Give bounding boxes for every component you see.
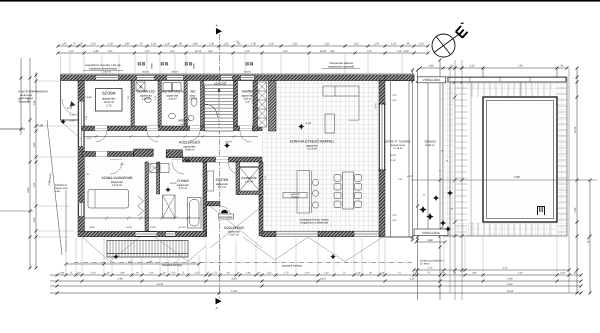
svg-text:12,30: 12,30	[320, 50, 327, 53]
svg-text:90/240: 90/240	[172, 71, 179, 74]
room: MOSDO	[178, 119, 190, 126]
svg-text:pá:90: pá:90	[150, 226, 156, 229]
svg-text:+: +	[451, 207, 453, 211]
dim numbers	[18, 43, 590, 293]
svg-text:5,10 m²: 5,10 m²	[218, 186, 227, 189]
svg-text:1,10: 1,10	[418, 43, 424, 46]
room: TERASZ	[424, 140, 436, 148]
tick marks on dims	[20, 45, 592, 295]
svg-text:96: 96	[407, 43, 410, 46]
svg-text:-1,90: -1,90	[305, 122, 311, 125]
svg-text:szint: szint	[55, 190, 60, 193]
svg-text:1,10: 1,10	[69, 50, 74, 53]
left wall	[78, 81, 84, 233]
svg-text:+: +	[441, 149, 443, 153]
svg-text:WC: WC	[190, 90, 196, 94]
top beam rect	[448, 77, 566, 82]
svg-text:2,90 m²: 2,90 m²	[245, 181, 254, 184]
coffee table / rug	[325, 114, 334, 133]
svg-text:2,70: 2,70	[106, 105, 112, 108]
corridor upper wall band	[82, 126, 262, 131]
door arcs	[62, 99, 252, 217]
porch deck grid	[107, 241, 188, 258]
svg-text:14,30: 14,30	[157, 283, 164, 286]
svg-text:10: 10	[80, 43, 83, 46]
svg-text:1,86: 1,86	[330, 50, 335, 53]
svg-text:KÖZLEKEDŐ: KÖZLEKEDŐ	[224, 226, 244, 230]
svg-text:1,90: 1,90	[398, 178, 403, 181]
svg-text:10: 10	[140, 43, 143, 46]
svg-text:11,30: 11,30	[587, 236, 590, 243]
svg-text:WC: WC	[185, 159, 189, 162]
kitchen counter	[297, 171, 310, 214]
left deck strip	[443, 82, 450, 236]
svg-text:ZUHANYZÓ: ZUHANYZÓ	[137, 90, 155, 94]
svg-text:ÉPÍTETT TERASZ: ÉPÍTETT TERASZ	[386, 140, 411, 144]
witness lines bottom	[66, 237, 557, 274]
svg-text:±0,00: ±0,00	[407, 175, 414, 178]
svg-text:7,40: 7,40	[517, 65, 523, 68]
room: GARDROB	[241, 176, 256, 184]
svg-text:kialakítás: kialakítás	[20, 100, 31, 103]
bottom dim lines	[66, 263, 199, 265]
svg-text:60: 60	[258, 272, 261, 275]
svg-text:2,70: 2,70	[245, 101, 250, 104]
svg-text:20,88 m²: 20,88 m²	[425, 144, 435, 147]
svg-text:17,46 m²: 17,46 m²	[393, 147, 403, 150]
svg-text:KÖZLEKEDŐ: KÖZLEKEDŐ	[179, 141, 200, 145]
room: KONYHA-ETKEZO-NAPPALI	[290, 140, 334, 151]
svg-text:15: 15	[207, 272, 210, 275]
svg-text:10,25: 10,25	[574, 126, 577, 133]
room: KOZLEKEDO corridor	[179, 141, 200, 152]
svg-text:1,45: 1,45	[391, 43, 397, 46]
svg-text:LÉPCSŐ: LÉPCSŐ	[214, 82, 227, 86]
top dim line 1	[58, 45, 428, 47]
deck ring tile joints	[455, 82, 567, 236]
bejarat label box	[219, 214, 234, 219]
svg-text:+0,00: +0,00	[225, 141, 232, 144]
svg-text:14,67 m²: 14,67 m²	[229, 234, 239, 237]
svg-text:FÜRDŐ: FÜRDŐ	[177, 179, 189, 183]
svg-text:30: 30	[227, 272, 230, 275]
svg-text:1,06: 1,06	[170, 50, 175, 53]
svg-text:1,10: 1,10	[409, 278, 415, 281]
top black bar	[0, 0, 600, 2]
svg-text:2,02: 2,02	[87, 137, 92, 140]
svg-text:16,80 m²: 16,80 m²	[185, 149, 195, 152]
svg-text:FŐÉPÜLET: FŐÉPÜLET	[47, 172, 53, 186]
svg-text:üvegfal: üvegfal	[291, 196, 299, 199]
svg-text:pá:120: pá:120	[179, 226, 186, 229]
svg-text:2,10: 2,10	[469, 65, 475, 68]
left annotation: A TETO FOPARKANYA	[18, 90, 48, 128]
diagonal property line	[47, 120, 62, 255]
wall between ELŐTÉR and porch	[206, 202, 220, 206]
svg-text:A TETŐ FŐPÁRKÁNYA: A TETŐ FŐPÁRKÁNYA	[18, 90, 48, 94]
svg-text:1,48: 1,48	[192, 43, 198, 46]
interior walls upper rooms	[131, 81, 134, 126]
svg-text:55: 55	[451, 65, 454, 68]
svg-text:90/240: 90/240	[244, 71, 251, 74]
svg-text:45: 45	[561, 65, 564, 68]
terrace vertical boundary lines	[391, 60, 441, 300]
svg-text:1,52 m²: 1,52 m²	[180, 123, 188, 126]
svg-text:1,40: 1,40	[251, 43, 257, 46]
room: FEDETT TERASZ	[386, 140, 411, 151]
section flag top	[216, 28, 222, 34]
svg-text:2,10: 2,10	[70, 114, 75, 117]
svg-text:1,98: 1,98	[428, 65, 434, 68]
svg-text:A: A	[216, 24, 218, 28]
svg-text:HÁZTARTÁSI H.: HÁZTARTÁSI H.	[161, 90, 185, 94]
svg-text:2,90: 2,90	[403, 50, 409, 53]
svg-text:5,20 m²: 5,20 m²	[179, 187, 188, 190]
window gaps in top wall	[96, 75, 254, 80]
viraglada top	[418, 77, 446, 83]
svg-text:12,70: 12,70	[195, 50, 202, 53]
svg-text:-0,02: -0,02	[66, 107, 72, 110]
svg-text:megoldandó (lapostető): megoldandó (lapostető)	[328, 65, 354, 68]
svg-text:1,48: 1,48	[246, 272, 251, 275]
svg-text:1,50: 1,50	[374, 43, 380, 46]
svg-text:1,48: 1,48	[356, 272, 361, 275]
svg-text:2,10: 2,10	[91, 272, 96, 275]
svg-text:1,18: 1,18	[397, 50, 402, 53]
svg-text:1,88: 1,88	[472, 272, 477, 275]
svg-text:4,56: 4,56	[33, 100, 36, 105]
svg-text:+: +	[439, 169, 441, 173]
svg-text:1,55: 1,55	[269, 43, 275, 46]
bar stools	[313, 179, 319, 185]
svg-text:1,20: 1,20	[223, 43, 229, 46]
svg-text:1,98: 1,98	[427, 239, 433, 242]
viraglada bottom	[414, 229, 448, 236]
top right dim line	[420, 67, 567, 69]
svg-text:15: 15	[398, 272, 401, 275]
svg-text:7,53: 7,53	[234, 40, 240, 43]
svg-text:SZOBA+GARDERÓB: SZOBA+GARDERÓB	[102, 176, 133, 180]
svg-text:90/65: 90/65	[193, 62, 196, 68]
svg-text:2,10: 2,10	[354, 43, 360, 46]
room: WC	[189, 90, 198, 101]
svg-text:2,48: 2,48	[391, 159, 396, 162]
internal dim line corridor	[84, 68, 557, 220]
svg-text:1,40: 1,40	[124, 43, 130, 46]
room: SZOBA+GARDEROB	[102, 176, 133, 187]
svg-text:KAMRA: KAMRA	[242, 90, 254, 94]
sofa	[323, 86, 359, 96]
rotated micro dims in rooms	[85, 95, 267, 180]
interior walls lower rooms	[145, 162, 149, 231]
level markers (4 point stars)	[113, 124, 335, 260]
svg-text:75: 75	[427, 272, 430, 275]
svg-text:1,90: 1,90	[283, 50, 288, 53]
shower tray	[163, 195, 176, 218]
svg-text:1,96: 1,96	[120, 272, 125, 275]
gardrobe rod squiggle	[138, 196, 144, 216]
svg-text:150/240: 150/240	[103, 71, 112, 74]
svg-text:GARDRÓB: GARDRÓB	[241, 176, 256, 180]
svg-text:(4,00): (4,00)	[390, 154, 396, 157]
bottom-right note	[420, 260, 444, 266]
flat roof contour dash-dot line	[74, 262, 412, 264]
svg-text:ÜF 6: ÜF 6	[375, 103, 378, 109]
terrace right edge thin walls	[385, 81, 414, 237]
svg-text:2,20: 2,20	[90, 43, 96, 46]
svg-text:3,05: 3,05	[33, 217, 36, 222]
west block faint floor	[82, 81, 256, 231]
svg-text:2,60: 2,60	[33, 142, 36, 147]
svg-text:5,36: 5,36	[148, 261, 153, 264]
small level texts	[66, 96, 311, 185]
room: KOZLEKEDO entry	[224, 226, 244, 237]
bottom wall living room	[262, 231, 276, 237]
svg-text:1,08: 1,08	[59, 272, 64, 275]
svg-text:A: A	[216, 306, 218, 310]
svg-text:7,00: 7,00	[392, 214, 397, 217]
svg-text:2,46: 2,46	[392, 219, 397, 222]
pool deck outline	[443, 77, 567, 236]
svg-text:5,46: 5,46	[93, 50, 99, 53]
svg-text:1,30: 1,30	[324, 272, 329, 275]
svg-text:4,60 m²: 4,60 m²	[168, 98, 177, 101]
svg-text:6,42: 6,42	[27, 187, 30, 193]
bottom wall left block	[78, 231, 206, 237]
svg-text:6,40: 6,40	[503, 267, 508, 270]
svg-text:TERASZ: TERASZ	[424, 140, 436, 144]
svg-text:5,60: 5,60	[574, 207, 577, 212]
svg-text:3,20: 3,20	[324, 43, 330, 46]
entrance door leaf + marker	[70, 101, 76, 107]
roof hip diagonals (dashed V patterns)	[60, 120, 383, 262]
entry canopy half disc	[221, 210, 228, 213]
dining table	[343, 172, 354, 209]
svg-text:1,75: 1,75	[284, 272, 289, 275]
left annotation: FOEPULET	[47, 172, 68, 193]
svg-text:40: 40	[136, 272, 139, 275]
plant marks on terrace	[419, 190, 453, 232]
svg-text:1,40: 1,40	[518, 272, 523, 275]
svg-text:+1,30: +1,30	[36, 124, 44, 128]
room: FURDO	[177, 179, 190, 190]
WC fixtures	[191, 98, 197, 106]
svg-text:3,80 m²: 3,80 m²	[142, 98, 151, 101]
top wall band	[61, 75, 415, 81]
entrance niche left edge	[61, 81, 79, 120]
svg-text:+1,40: +1,40	[85, 96, 92, 99]
top dim line 2	[58, 52, 428, 54]
svg-text:GÉPJÁRAT: GÉPJÁRAT	[219, 215, 233, 219]
svg-text:1,98: 1,98	[440, 272, 445, 275]
svg-text:+: +	[446, 159, 448, 163]
svg-text:±0,00: ±0,00	[170, 182, 177, 185]
chairs left column	[334, 175, 341, 182]
witness lines left	[38, 81, 76, 237]
svg-text:75: 75	[343, 272, 346, 275]
left vertical dim lines	[20, 58, 22, 135]
bathtub	[188, 198, 202, 229]
svg-text:lapostető kontúrja: lapostető kontúrja	[282, 265, 302, 268]
top annotation texts	[83, 62, 360, 70]
svg-text:1,50: 1,50	[151, 43, 157, 46]
svg-text:1,20: 1,20	[165, 43, 171, 46]
svg-text:2,20: 2,20	[305, 272, 310, 275]
svg-text:15: 15	[70, 272, 73, 275]
label box in SZOBA	[96, 89, 123, 112]
room: KAMRA	[241, 90, 254, 104]
svg-text:60: 60	[78, 272, 81, 275]
svg-text:16,23: 16,23	[507, 290, 514, 293]
svg-text:sz: 90cm: sz: 90cm	[420, 263, 430, 266]
svg-text:1,40: 1,40	[149, 272, 154, 275]
svg-text:1,35: 1,35	[267, 272, 272, 275]
room: ZUHANYZO	[137, 90, 155, 101]
svg-text:30: 30	[369, 272, 372, 275]
eave line above top wall	[61, 73, 415, 75]
svg-text:90: 90	[179, 43, 182, 46]
svg-text:8,40: 8,40	[507, 283, 513, 286]
room: SZOBA	[102, 91, 116, 108]
svg-text:1,30: 1,30	[108, 43, 114, 46]
svg-text:90/65: 90/65	[151, 62, 154, 68]
witness lines top	[61, 54, 403, 74]
svg-text:1,02: 1,02	[145, 50, 150, 53]
svg-text:1,20: 1,20	[171, 272, 176, 275]
svg-text:1,20: 1,20	[367, 50, 372, 53]
vendegvaro terasz note	[300, 219, 329, 225]
svg-text:zárófödém átszellőztetett: zárófödém átszellőztetett	[89, 67, 117, 70]
svg-text:7,00: 7,00	[392, 94, 397, 97]
terrace strip floor	[385, 81, 445, 231]
svg-text:2,02: 2,02	[108, 50, 113, 53]
shelving strip right of KAMRA	[258, 82, 267, 127]
pool ladder	[538, 207, 545, 216]
svg-text:5,46: 5,46	[117, 278, 123, 281]
living room tile floor	[262, 81, 380, 231]
svg-text:4,42: 4,42	[33, 182, 36, 187]
svg-text:2,40: 2,40	[70, 120, 75, 123]
svg-text:1,16: 1,16	[245, 50, 250, 53]
bed in SZOBA+GARDEROB	[88, 190, 129, 209]
svg-text:VIRÁGLÁDA: VIRÁGLÁDA	[423, 78, 442, 82]
chairs right column	[355, 175, 362, 182]
svg-text:2,46: 2,46	[392, 99, 397, 102]
mosdo sink	[188, 116, 194, 121]
svg-text:90/240: 90/240	[142, 71, 149, 74]
svg-text:ELŐTÉR: ELŐTÉR	[216, 178, 229, 182]
mid horizontal line	[411, 179, 597, 181]
svg-text:2,36: 2,36	[292, 43, 298, 46]
room: ELOTER	[216, 178, 229, 189]
right wall of living room	[379, 81, 385, 237]
svg-text:75: 75	[182, 272, 185, 275]
svg-text:KONYHA-ÉTKEZŐ-NAPPALI: KONYHA-ÉTKEZŐ-NAPPALI	[290, 140, 334, 144]
svg-text:1,30: 1,30	[209, 43, 215, 46]
svg-text:1,75: 1,75	[213, 272, 218, 275]
szelvedo uvegfal label box	[283, 193, 307, 199]
svg-text:pá:30: pá:30	[126, 226, 132, 229]
fence line left	[65, 190, 67, 252]
corridor lower wall band (stepped)	[82, 152, 134, 157]
svg-text:14,67: 14,67	[320, 278, 327, 281]
pool basin double rect	[483, 97, 557, 222]
svg-text:1,50 m²: 1,50 m²	[189, 98, 198, 101]
svg-text:4,45: 4,45	[231, 278, 237, 281]
right vertical dim lines	[576, 68, 578, 293]
svg-text:41,16 m²: 41,16 m²	[307, 148, 317, 151]
svg-text:15,40 m²: 15,40 m²	[112, 184, 122, 187]
right vertical witness lines	[449, 68, 451, 293]
svg-text:2,10: 2,10	[428, 267, 433, 270]
stairs	[205, 85, 234, 131]
svg-text:VIRÁGLÁDA: VIRÁGLÁDA	[422, 231, 441, 235]
svg-text:1,30: 1,30	[61, 43, 67, 46]
washer in FÜRDŐ	[150, 164, 159, 173]
thresholds	[95, 128, 252, 159]
svg-text:szegélyezve a zöldterület: szegélyezve a zöldterület	[300, 222, 328, 225]
svg-text:5,00: 5,00	[514, 175, 520, 179]
svg-text:45: 45	[574, 272, 577, 275]
svg-text:30: 30	[107, 272, 110, 275]
haztartasi appliances	[163, 83, 172, 92]
svg-text:6,40: 6,40	[561, 272, 566, 275]
svg-text:30: 30	[163, 272, 166, 275]
svg-text:lapostető kontúrja: lapostető kontúrja	[162, 264, 182, 267]
svg-text:7,531: 7,531	[231, 290, 238, 293]
svg-text:1,90: 1,90	[208, 50, 213, 53]
svg-text:70: 70	[237, 272, 240, 275]
svg-text:+: +	[423, 193, 425, 197]
svg-text:SZOBA: SZOBA	[102, 91, 116, 96]
svg-text:2,36: 2,36	[380, 272, 385, 275]
section flag bottom	[216, 298, 222, 304]
svg-text:6,40: 6,40	[507, 278, 513, 281]
pool deck tiled ring	[443, 77, 567, 236]
svg-text:75: 75	[73, 43, 76, 46]
room: HAZTARTASI	[161, 90, 185, 101]
svg-text:pá:90: pá:90	[89, 226, 95, 229]
